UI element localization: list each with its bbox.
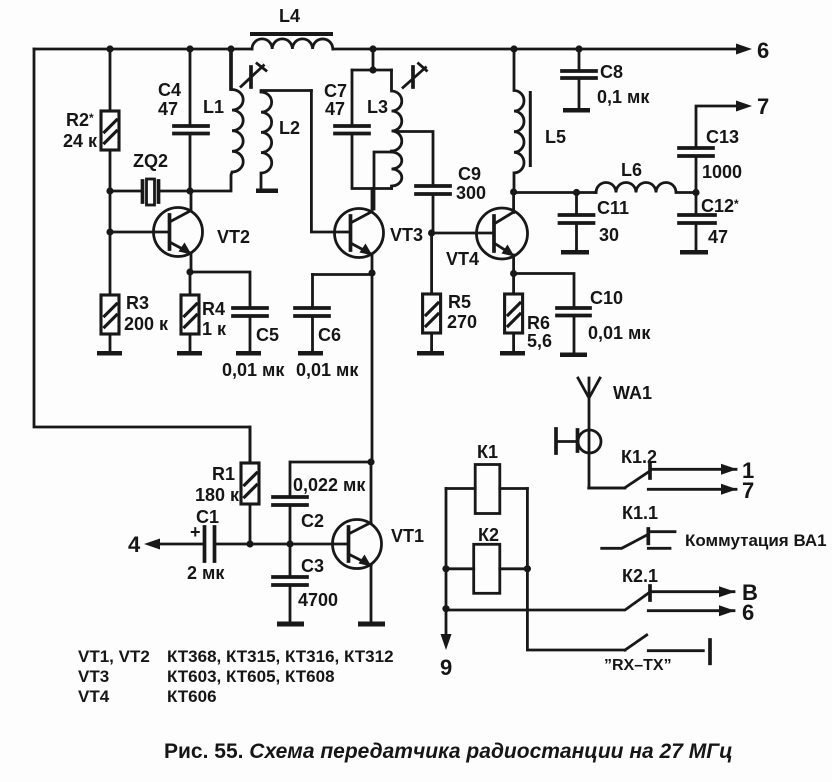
svg-text:C10: C10	[590, 288, 623, 308]
ground C10	[560, 353, 587, 358]
svg-text:WA1: WA1	[613, 383, 652, 403]
svg-text:R4: R4	[202, 299, 225, 319]
inductor L4	[250, 6, 333, 49]
svg-text:VT4: VT4	[446, 249, 479, 269]
svg-text:К2.1: К2.1	[622, 566, 658, 586]
svg-text:L6: L6	[621, 160, 642, 180]
svg-text:47: 47	[158, 99, 178, 119]
svg-text:C7: C7	[324, 81, 347, 101]
node VT1 collector C2	[367, 458, 374, 465]
antenna connector circle	[556, 429, 625, 488]
svg-text:VT3: VT3	[78, 667, 109, 686]
capacitor C13	[679, 106, 742, 193]
svg-text:0,1 мк: 0,1 мк	[597, 87, 650, 107]
svg-text:5,6: 5,6	[527, 331, 552, 351]
wire C6 to VT3 emitter	[313, 273, 373, 276]
svg-text:C3: C3	[301, 556, 324, 576]
wire VT2 base	[110, 231, 168, 234]
node VT4 base	[428, 229, 435, 236]
svg-text:6: 6	[757, 38, 769, 63]
svg-text:VT4: VT4	[78, 687, 110, 706]
capacitor C10	[514, 274, 652, 353]
ground VT1 emitter	[358, 622, 385, 627]
svg-text:47: 47	[325, 99, 345, 119]
resistor R4	[181, 272, 227, 351]
trimmer arrow L1	[241, 64, 266, 88]
capacitor C11	[560, 193, 630, 251]
svg-text:C12*: C12*	[701, 196, 739, 216]
node 9 branch	[442, 605, 449, 612]
transistor VT2	[154, 191, 251, 272]
svg-text:L2: L2	[279, 118, 300, 138]
resistor R3	[101, 293, 169, 351]
resistor R6	[505, 274, 552, 352]
inductor L1	[190, 49, 243, 191]
node top rail at L1	[227, 45, 234, 52]
svg-text:К1: К1	[477, 442, 498, 462]
node ZQ2 left	[106, 187, 113, 194]
ground C5	[236, 351, 261, 356]
node VT4 emitter	[510, 270, 517, 277]
capacitor C7	[324, 70, 392, 189]
svg-text:VT1: VT1	[391, 526, 424, 546]
node VT2 base	[106, 228, 113, 235]
svg-text:C5: C5	[256, 325, 279, 345]
svg-text:30: 30	[599, 225, 619, 245]
terminal 9 arrow	[440, 609, 452, 680]
ground R5	[417, 351, 444, 356]
svg-text:R2*: R2*	[66, 110, 94, 130]
wire left outer branch	[34, 49, 250, 463]
capacitor C5	[190, 272, 285, 380]
ground C6	[298, 351, 323, 356]
wire relay right rail	[527, 489, 625, 651]
node C2 C3 junction	[286, 540, 293, 547]
svg-text:300: 300	[456, 183, 486, 203]
node VT3 emitter	[368, 269, 375, 276]
switch K1.2	[589, 447, 755, 503]
node R1 bottom	[246, 540, 253, 547]
svg-text:L5: L5	[545, 127, 566, 147]
wire L5 node to L6	[514, 191, 596, 194]
crystal ZQ2	[110, 151, 190, 205]
svg-text:47: 47	[708, 227, 728, 247]
svg-text:0,022 мк: 0,022 мк	[293, 475, 366, 495]
node K2 right	[524, 565, 531, 572]
svg-text:Коммутация ВА1: Коммутация ВА1	[685, 531, 827, 550]
wire relay left rail	[445, 489, 448, 609]
svg-text:C8: C8	[600, 62, 623, 82]
inductor L5	[514, 49, 566, 192]
node top rail at L3 tank	[369, 45, 376, 52]
svg-text:270: 270	[447, 312, 477, 332]
resistor R1	[195, 427, 259, 544]
terminal 7 arrow	[736, 94, 769, 119]
caption	[164, 740, 733, 763]
svg-text:C11: C11	[597, 198, 629, 218]
inductor L2	[256, 91, 311, 194]
svg-text:К1.1: К1.1	[622, 503, 658, 523]
svg-text:7: 7	[742, 478, 754, 503]
svg-text:L4: L4	[279, 6, 300, 26]
wire VT4 base	[432, 232, 493, 235]
node L5 bottom	[510, 188, 517, 195]
svg-text:9: 9	[440, 655, 452, 680]
ground R3	[97, 351, 122, 356]
ground C12	[680, 250, 708, 255]
capacitor C4	[158, 49, 208, 191]
switch K2.1	[446, 566, 758, 625]
ground C3	[277, 622, 304, 627]
svg-text:Рис. 55. Схема передатчика рад: Рис. 55. Схема передатчика радиостанции …	[164, 740, 733, 763]
svg-text:R3: R3	[126, 293, 149, 313]
svg-text:4700: 4700	[298, 590, 338, 610]
svg-text:200 к: 200 к	[124, 314, 169, 334]
relay coil K2	[446, 525, 527, 593]
switch RX-TX	[604, 635, 710, 674]
wire R2 to R3	[109, 191, 112, 295]
svg-text:C4: C4	[158, 80, 181, 100]
switch K1.1	[602, 503, 827, 550]
svg-text:R1: R1	[212, 464, 235, 484]
transistor type table	[78, 647, 394, 706]
svg-text:К2: К2	[478, 525, 499, 545]
svg-text:КТ368, КТ315, КТ316, КТ312: КТ368, КТ315, КТ316, КТ312	[167, 647, 394, 666]
svg-text:0,01 мк: 0,01 мк	[588, 323, 651, 343]
wire VT3 emitter to VT1 collector	[371, 273, 374, 460]
svg-text:ZQ2: ZQ2	[133, 151, 168, 171]
capacitor C1	[158, 507, 290, 583]
svg-text:”RX–TX”: ”RX–TX”	[604, 657, 672, 674]
svg-text:КТ606: КТ606	[167, 687, 217, 706]
svg-text:VT3: VT3	[390, 225, 423, 245]
node tank top	[369, 66, 376, 73]
svg-text:7: 7	[757, 94, 769, 119]
capacitor C2	[273, 462, 371, 544]
svg-text:0,01 мк: 0,01 мк	[296, 360, 359, 380]
transistor VT1	[333, 462, 425, 621]
terminal 4 arrow	[128, 532, 160, 557]
svg-text:VT1, VT2: VT1, VT2	[78, 647, 150, 666]
wire C1 to VT1 base	[290, 543, 347, 546]
node L6 right	[692, 189, 699, 196]
svg-text:+: +	[190, 522, 201, 542]
inductor L6	[596, 160, 696, 193]
svg-text:C2: C2	[301, 511, 324, 531]
capacitor C3	[273, 544, 338, 621]
transistor VT4	[446, 192, 528, 274]
svg-text:2 мк: 2 мк	[187, 563, 225, 583]
svg-text:VT2: VT2	[217, 227, 250, 247]
node top rail at R2	[106, 45, 113, 52]
capacitor C8	[562, 49, 650, 108]
transistor VT3	[335, 189, 424, 274]
inductor L3	[367, 70, 402, 209]
node C11	[573, 189, 580, 196]
svg-text:4: 4	[128, 532, 141, 557]
svg-text:24 к: 24 к	[63, 131, 98, 151]
trimmer arrow L3	[403, 64, 427, 88]
capacitor C12	[679, 193, 739, 251]
svg-text:C9: C9	[458, 164, 481, 184]
svg-text:180 к: 180 к	[195, 485, 240, 505]
svg-text:L1: L1	[203, 97, 224, 117]
svg-text:L3: L3	[367, 97, 388, 117]
svg-text:R6: R6	[527, 313, 550, 333]
svg-text:1 к: 1 к	[202, 319, 227, 339]
svg-text:1000: 1000	[702, 162, 742, 182]
resistor R5	[423, 233, 477, 351]
relay coil K1	[446, 442, 527, 514]
wire rail to tank	[352, 49, 392, 70]
antenna WA1	[578, 378, 652, 430]
capacitor C9	[396, 132, 486, 234]
wire top supply rail	[34, 48, 738, 51]
wire L2 to VT3 base	[311, 91, 349, 233]
ground R4	[177, 351, 202, 356]
ground C8	[563, 108, 590, 113]
svg-text:6: 6	[742, 600, 754, 625]
svg-text:0,01 мк: 0,01 мк	[222, 360, 285, 380]
node ZQ2 right / VT2 collector	[186, 187, 193, 194]
ground R6	[500, 351, 525, 356]
capacitor C6	[295, 275, 359, 381]
node top rail at C8	[575, 45, 582, 52]
node top rail at C4	[186, 45, 193, 52]
node top rail at L5	[510, 45, 517, 52]
ground C11	[561, 250, 589, 255]
svg-text:C6: C6	[318, 325, 341, 345]
svg-text:R5: R5	[448, 292, 471, 312]
node K2 left	[442, 565, 449, 572]
svg-text:К1.2: К1.2	[621, 447, 657, 467]
resistor R2	[63, 49, 119, 191]
node VT2 emitter	[186, 268, 193, 275]
svg-text:C13: C13	[706, 127, 739, 147]
terminal 6 arrow top right	[736, 38, 769, 63]
svg-text:КТ603, КТ605, КТ608: КТ603, КТ605, КТ608	[167, 667, 335, 686]
